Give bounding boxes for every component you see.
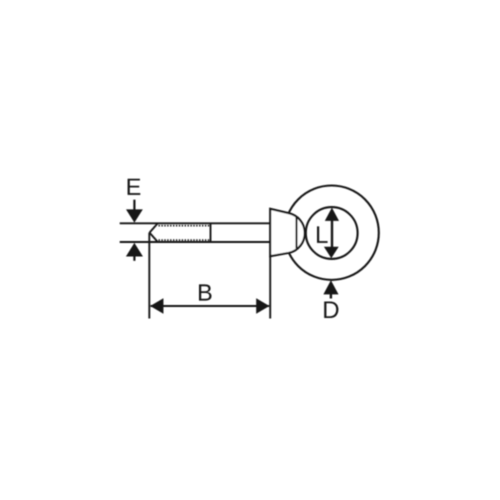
L arrow shaft <box>331 218 333 249</box>
B right arrowhead <box>256 298 269 314</box>
B left arrowhead <box>150 298 163 314</box>
label D <box>324 302 338 319</box>
thread root top (dotted) <box>159 225 210 227</box>
ring inner circle <box>306 207 358 259</box>
L down arrowhead <box>324 247 339 259</box>
B left extension line <box>148 233 150 319</box>
chamfer bottom edge <box>150 233 158 242</box>
thread end line <box>210 223 212 242</box>
thread root bottom (dotted) <box>159 239 210 241</box>
label B <box>199 284 212 300</box>
E arrow lower shaft <box>133 256 135 261</box>
L up arrowhead <box>325 208 339 221</box>
E arrow upper shaft <box>133 200 135 211</box>
B dimension line <box>151 305 270 307</box>
collar (shoulder) white-filled over ring <box>270 209 305 256</box>
collar joint line <box>295 217 297 249</box>
label E <box>128 179 141 195</box>
D up arrowhead <box>323 280 338 294</box>
E up arrowhead <box>126 243 143 257</box>
label L <box>317 226 328 243</box>
chamfer top edge <box>150 223 158 232</box>
ring outer circle <box>284 186 378 280</box>
B right extension line (collar edge continued) <box>269 256 271 318</box>
shank top line <box>120 222 271 224</box>
D arrow shaft <box>330 293 332 299</box>
shank bottom line <box>120 241 271 243</box>
E down arrowhead <box>126 209 143 222</box>
